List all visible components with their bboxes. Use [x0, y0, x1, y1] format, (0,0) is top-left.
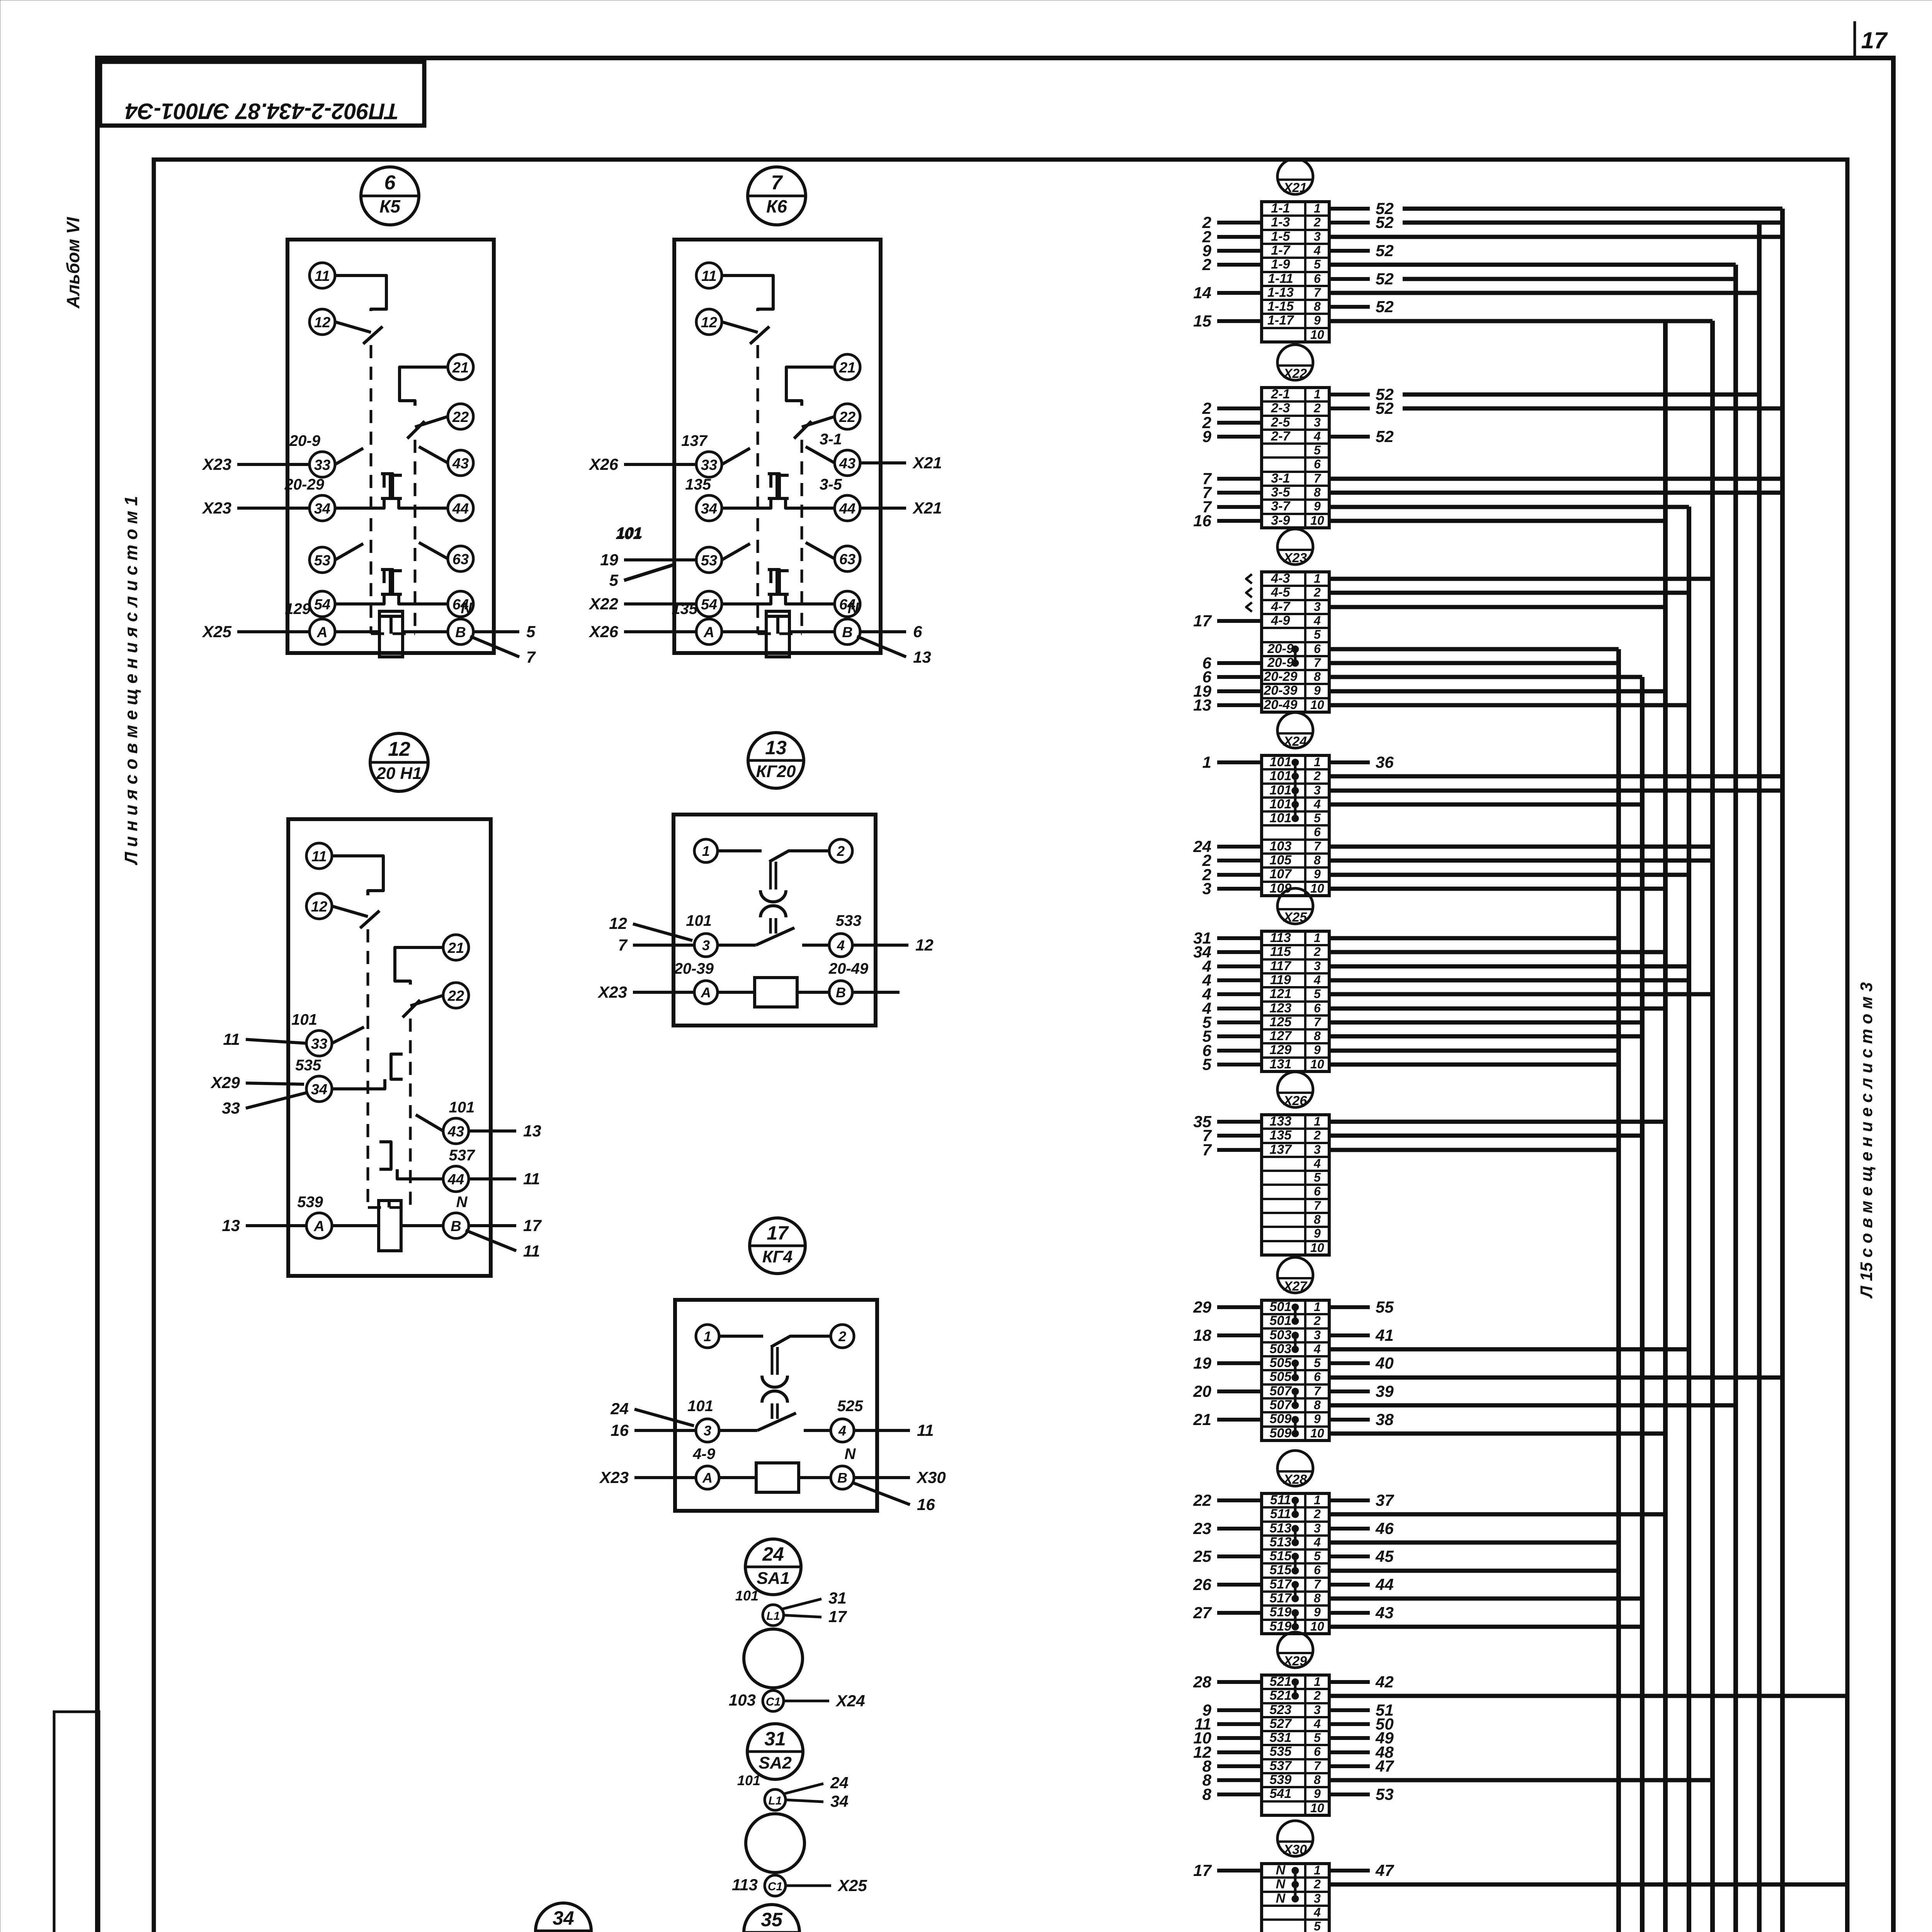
svg-text:Х21: Х21: [912, 454, 942, 472]
svg-text:135: 135: [685, 476, 711, 493]
svg-text:2: 2: [1313, 769, 1321, 783]
svg-text:13: 13: [765, 737, 787, 759]
svg-text:17: 17: [523, 1216, 542, 1235]
svg-text:52: 52: [1376, 213, 1394, 231]
svg-text:3-1: 3-1: [1271, 471, 1290, 486]
svg-text:103: 103: [729, 1691, 756, 1709]
svg-text:1: 1: [1314, 1863, 1321, 1877]
svg-text:3-5: 3-5: [820, 476, 842, 493]
svg-text:2: 2: [1313, 1128, 1321, 1142]
svg-text:6: 6: [913, 622, 922, 641]
svg-text:503: 503: [1270, 1328, 1292, 1342]
svg-text:20-9: 20-9: [1267, 641, 1294, 656]
svg-text:35: 35: [761, 1909, 783, 1930]
svg-text:3-7: 3-7: [1271, 499, 1291, 514]
svg-text:511: 511: [1270, 1493, 1291, 1507]
svg-text:533: 533: [836, 912, 862, 929]
svg-text:537: 537: [1270, 1759, 1293, 1773]
svg-text:22: 22: [447, 988, 464, 1004]
svg-text:105: 105: [1270, 853, 1292, 867]
svg-text:Л 15 с о в м е щ е н и е: Л 15 с о в м е щ е н и е с л и с т о м 3: [1857, 982, 1876, 1299]
svg-text:36: 36: [1376, 753, 1394, 771]
svg-text:113: 113: [732, 1876, 758, 1894]
svg-text:1: 1: [1314, 1114, 1321, 1128]
svg-text:1-3: 1-3: [1271, 215, 1290, 230]
svg-text:101: 101: [687, 1398, 713, 1415]
svg-text:К6: К6: [766, 196, 787, 216]
svg-text:В: В: [842, 624, 852, 641]
svg-text:3: 3: [704, 1423, 711, 1439]
svg-text:SА2: SА2: [759, 1753, 792, 1772]
svg-text:11: 11: [311, 849, 327, 865]
svg-text:9: 9: [1314, 684, 1321, 697]
svg-text:17: 17: [828, 1607, 847, 1626]
svg-text:1: 1: [1314, 931, 1321, 945]
svg-text:20 Н1: 20 Н1: [376, 764, 422, 783]
svg-text:519: 519: [1270, 1619, 1292, 1634]
svg-text:3: 3: [1314, 1143, 1321, 1156]
svg-text:8: 8: [1314, 853, 1321, 867]
svg-text:25: 25: [1193, 1547, 1211, 1565]
svg-text:18: 18: [1193, 1326, 1211, 1344]
svg-text:10: 10: [1310, 1619, 1324, 1633]
svg-text:4: 4: [838, 1423, 846, 1439]
svg-text:127: 127: [1270, 1029, 1293, 1043]
svg-text:9: 9: [1314, 1412, 1321, 1426]
svg-text:Х26: Х26: [1283, 1094, 1308, 1108]
svg-text:6: 6: [1314, 1184, 1321, 1198]
svg-text:Х23: Х23: [202, 499, 231, 517]
svg-text:505: 505: [1270, 1369, 1292, 1384]
svg-text:23: 23: [1193, 1519, 1211, 1537]
svg-text:7: 7: [1314, 1577, 1321, 1591]
svg-text:5: 5: [526, 622, 536, 641]
svg-text:16: 16: [611, 1421, 629, 1439]
svg-text:6: 6: [1314, 1370, 1321, 1384]
svg-text:17: 17: [1193, 1861, 1212, 1879]
svg-text:20-29: 20-29: [1264, 669, 1298, 684]
svg-text:Х23: Х23: [1283, 551, 1307, 565]
svg-text:5: 5: [1314, 1731, 1321, 1745]
svg-text:7: 7: [1314, 656, 1321, 670]
svg-text:541: 541: [1270, 1786, 1292, 1801]
svg-text:123: 123: [1270, 1001, 1292, 1015]
svg-text:44: 44: [1375, 1575, 1394, 1594]
svg-text:Х29: Х29: [1283, 1654, 1307, 1668]
svg-text:А: А: [703, 624, 714, 641]
svg-text:4: 4: [837, 937, 845, 953]
svg-text:38: 38: [1376, 1410, 1394, 1429]
svg-text:КГ4: КГ4: [762, 1247, 793, 1266]
svg-text:8: 8: [1314, 299, 1321, 313]
svg-text:Альбом VI: Альбом VI: [63, 217, 83, 309]
svg-text:523: 523: [1270, 1702, 1292, 1717]
svg-text:11: 11: [315, 268, 330, 284]
svg-text:54: 54: [701, 597, 717, 613]
svg-text:4: 4: [1313, 973, 1321, 987]
svg-text:12: 12: [915, 936, 934, 954]
svg-text:6: 6: [1314, 825, 1321, 839]
svg-text:21: 21: [452, 360, 469, 376]
svg-text:10: 10: [1310, 1241, 1324, 1255]
svg-text:3: 3: [1314, 415, 1321, 429]
svg-text:34: 34: [830, 1792, 849, 1810]
svg-text:15: 15: [1193, 312, 1211, 330]
svg-text:3-9: 3-9: [1271, 513, 1290, 528]
svg-text:14: 14: [1193, 284, 1211, 302]
svg-text:5: 5: [1314, 1356, 1321, 1370]
svg-text:535: 535: [295, 1057, 321, 1074]
svg-text:27: 27: [1193, 1604, 1212, 1622]
svg-text:22: 22: [1193, 1491, 1211, 1509]
svg-text:34: 34: [311, 1082, 327, 1098]
svg-text:20-9: 20-9: [289, 432, 321, 449]
svg-text:3: 3: [1314, 1521, 1321, 1535]
svg-text:4: 4: [1313, 1905, 1321, 1919]
svg-text:121: 121: [1270, 986, 1292, 1001]
svg-text:20-9: 20-9: [1267, 655, 1294, 670]
svg-text:2: 2: [1202, 255, 1211, 274]
svg-text:509: 509: [1270, 1426, 1292, 1440]
svg-text:1-7: 1-7: [1271, 243, 1291, 258]
svg-text:L1: L1: [766, 1610, 780, 1622]
svg-text:24: 24: [830, 1774, 849, 1792]
svg-text:3: 3: [1314, 783, 1321, 797]
svg-text:5: 5: [1314, 1919, 1321, 1932]
svg-text:137: 137: [1270, 1142, 1293, 1157]
svg-text:3: 3: [1314, 959, 1321, 973]
svg-text:7: 7: [1314, 471, 1321, 485]
svg-text:34: 34: [553, 1907, 574, 1929]
svg-text:1-11: 1-11: [1268, 271, 1293, 286]
svg-text:11: 11: [917, 1421, 934, 1439]
svg-text:8: 8: [1202, 1785, 1212, 1803]
svg-text:539: 539: [1270, 1772, 1292, 1787]
svg-text:8: 8: [1314, 485, 1321, 499]
svg-text:4-5: 4-5: [1270, 585, 1290, 600]
svg-text:Х25: Х25: [837, 1876, 867, 1895]
svg-text:101: 101: [737, 1772, 760, 1788]
svg-text:9: 9: [1314, 1605, 1321, 1619]
svg-text:501: 501: [1270, 1299, 1292, 1314]
svg-text:10: 10: [1310, 1801, 1324, 1815]
svg-text:1-9: 1-9: [1271, 257, 1290, 272]
svg-text:63: 63: [839, 551, 855, 568]
svg-text:12: 12: [311, 899, 327, 915]
svg-text:33: 33: [222, 1099, 240, 1117]
svg-text:119: 119: [1270, 973, 1291, 987]
svg-text:1: 1: [1202, 753, 1211, 771]
svg-text:133: 133: [1270, 1114, 1292, 1129]
svg-text:2-7: 2-7: [1270, 429, 1291, 444]
svg-text:2: 2: [837, 843, 845, 859]
svg-text:52: 52: [1376, 399, 1394, 417]
svg-text:43: 43: [1375, 1604, 1394, 1622]
svg-text:20-39: 20-39: [1264, 683, 1298, 698]
svg-text:40: 40: [1375, 1354, 1394, 1372]
svg-text:С1: С1: [766, 1696, 781, 1708]
svg-text:527: 527: [1270, 1716, 1293, 1731]
svg-text:11: 11: [701, 268, 716, 284]
svg-text:517: 517: [1270, 1591, 1293, 1605]
svg-text:Х26: Х26: [588, 455, 618, 473]
svg-text:2: 2: [1313, 1314, 1321, 1328]
svg-text:505: 505: [1270, 1355, 1292, 1370]
svg-text:ТП902-2-434.87 ЭЛ001-Э4: ТП902-2-434.87 ЭЛ001-Э4: [125, 99, 399, 124]
svg-text:513: 513: [1270, 1535, 1292, 1549]
svg-text:9: 9: [1314, 1226, 1321, 1240]
svg-text:4: 4: [1313, 1717, 1321, 1731]
svg-text:7: 7: [618, 936, 628, 954]
svg-text:Х21: Х21: [1283, 180, 1307, 195]
svg-text:8: 8: [1314, 1398, 1321, 1412]
svg-text:125: 125: [1270, 1015, 1292, 1029]
svg-text:2: 2: [1313, 1689, 1321, 1702]
svg-text:А: А: [702, 1470, 713, 1486]
svg-text:N: N: [1276, 1891, 1286, 1906]
svg-text:507: 507: [1270, 1384, 1293, 1398]
svg-text:509: 509: [1270, 1412, 1292, 1426]
svg-text:9: 9: [1202, 427, 1212, 446]
svg-text:22: 22: [452, 409, 469, 425]
svg-text:53: 53: [314, 553, 330, 569]
svg-text:2: 2: [838, 1328, 846, 1344]
svg-text:1-5: 1-5: [1271, 229, 1290, 244]
svg-text:6: 6: [1314, 642, 1321, 656]
svg-text:46: 46: [1375, 1519, 1394, 1537]
svg-text:3: 3: [1202, 879, 1211, 898]
svg-text:44: 44: [839, 501, 855, 517]
svg-text:2: 2: [1313, 945, 1321, 959]
svg-text:7: 7: [1202, 1141, 1212, 1159]
svg-text:Х27: Х27: [1283, 1279, 1308, 1294]
svg-text:9: 9: [1314, 313, 1321, 327]
svg-text:N: N: [845, 1446, 856, 1463]
svg-text:13: 13: [1193, 696, 1211, 714]
svg-text:115: 115: [1270, 944, 1291, 959]
svg-text:3: 3: [1314, 600, 1321, 614]
svg-text:Х25: Х25: [202, 622, 231, 641]
svg-text:117: 117: [1270, 959, 1292, 973]
svg-text:43: 43: [452, 456, 469, 472]
svg-text:1: 1: [1314, 201, 1321, 215]
svg-text:Х30: Х30: [1283, 1842, 1307, 1857]
svg-text:6: 6: [1314, 1001, 1321, 1015]
svg-text:513: 513: [1270, 1521, 1292, 1536]
svg-text:20-29: 20-29: [284, 476, 325, 493]
svg-text:16: 16: [1193, 512, 1211, 530]
svg-text:31: 31: [828, 1589, 847, 1607]
svg-text:А: А: [701, 985, 711, 1000]
svg-text:17: 17: [767, 1222, 789, 1244]
svg-text:517: 517: [1270, 1577, 1293, 1592]
svg-text:101: 101: [1270, 755, 1292, 769]
svg-text:511: 511: [1270, 1507, 1291, 1521]
svg-text:9: 9: [1314, 1043, 1321, 1057]
svg-text:2: 2: [1313, 215, 1321, 229]
svg-text:101: 101: [1270, 769, 1292, 783]
svg-text:21: 21: [839, 360, 855, 376]
svg-text:20: 20: [1193, 1382, 1211, 1400]
svg-text:2-5: 2-5: [1270, 415, 1290, 430]
svg-text:8: 8: [1314, 670, 1321, 684]
svg-text:17: 17: [1193, 612, 1212, 630]
svg-text:1-17: 1-17: [1267, 313, 1294, 328]
svg-text:1-1: 1-1: [1271, 201, 1290, 216]
svg-text:7: 7: [1314, 1759, 1321, 1773]
svg-text:53: 53: [1376, 1785, 1394, 1803]
svg-text:5: 5: [609, 571, 619, 589]
svg-text:3: 3: [1314, 1328, 1321, 1342]
svg-text:4: 4: [1313, 797, 1321, 811]
svg-text:6: 6: [1314, 1745, 1321, 1759]
svg-text:54: 54: [314, 597, 330, 613]
svg-text:44: 44: [447, 1172, 464, 1188]
svg-text:2: 2: [1313, 585, 1321, 599]
svg-text:1: 1: [702, 843, 710, 859]
svg-text:39: 39: [1376, 1382, 1394, 1400]
svg-text:20-39: 20-39: [674, 960, 714, 977]
svg-text:10: 10: [1310, 1057, 1324, 1071]
svg-text:101: 101: [291, 1011, 317, 1028]
svg-text:В: В: [455, 624, 466, 641]
svg-text:5: 5: [1314, 987, 1321, 1001]
svg-text:N: N: [461, 600, 473, 617]
svg-text:113: 113: [1270, 930, 1291, 945]
svg-text:19: 19: [1193, 1354, 1211, 1372]
svg-text:24: 24: [610, 1400, 629, 1418]
svg-text:2: 2: [1313, 401, 1321, 415]
svg-text:4: 4: [1313, 1342, 1321, 1356]
svg-text:52: 52: [1376, 270, 1394, 288]
svg-text:515: 515: [1270, 1563, 1292, 1577]
svg-text:43: 43: [839, 456, 855, 472]
svg-text:13: 13: [222, 1216, 240, 1235]
svg-text:Х23: Х23: [597, 983, 627, 1001]
svg-text:135: 135: [1270, 1128, 1292, 1143]
svg-text:5: 5: [1314, 811, 1321, 825]
svg-text:6: 6: [384, 172, 396, 194]
svg-text:4: 4: [1313, 243, 1321, 257]
svg-text:10: 10: [1310, 1426, 1324, 1440]
svg-text:А: А: [316, 624, 327, 641]
svg-text:507: 507: [1270, 1398, 1293, 1412]
svg-text:11: 11: [223, 1030, 240, 1048]
svg-text:8: 8: [1314, 1029, 1321, 1043]
svg-text:101: 101: [1270, 811, 1292, 825]
svg-text:24: 24: [762, 1543, 784, 1565]
svg-text:5: 5: [1314, 1549, 1321, 1563]
svg-text:С1: С1: [768, 1880, 782, 1893]
svg-text:101: 101: [1270, 797, 1292, 811]
svg-text:10: 10: [1310, 514, 1324, 527]
svg-text:31: 31: [764, 1728, 786, 1750]
svg-text:7: 7: [1314, 839, 1321, 853]
svg-text:N: N: [456, 1194, 468, 1211]
svg-text:Х23: Х23: [599, 1468, 629, 1486]
svg-text:Х24: Х24: [1283, 734, 1307, 749]
svg-text:9: 9: [1314, 1787, 1321, 1801]
svg-text:5: 5: [1314, 443, 1321, 457]
svg-text:8: 8: [1314, 1591, 1321, 1605]
svg-text:Х22: Х22: [1283, 366, 1307, 381]
svg-text:521: 521: [1270, 1674, 1292, 1689]
svg-text:7: 7: [1314, 286, 1321, 299]
svg-text:26: 26: [1193, 1575, 1211, 1594]
svg-text:101: 101: [1270, 783, 1292, 798]
svg-text:52: 52: [1376, 427, 1394, 446]
svg-text:13: 13: [523, 1122, 541, 1140]
svg-text:19: 19: [600, 551, 618, 569]
svg-text:37: 37: [1376, 1491, 1394, 1509]
svg-text:А: А: [313, 1218, 324, 1235]
svg-text:41: 41: [1375, 1326, 1394, 1344]
svg-text:4: 4: [1313, 1535, 1321, 1549]
svg-text:4-7: 4-7: [1270, 599, 1291, 614]
svg-text:В: В: [451, 1218, 461, 1235]
svg-text:1: 1: [1314, 1300, 1321, 1314]
svg-text:12: 12: [314, 315, 330, 331]
svg-text:Х24: Х24: [835, 1692, 865, 1710]
svg-text:52: 52: [1376, 298, 1394, 316]
svg-text:47: 47: [1375, 1861, 1394, 1879]
svg-text:501: 501: [1270, 1313, 1292, 1328]
svg-text:34: 34: [701, 501, 717, 517]
svg-text:137: 137: [681, 432, 707, 449]
svg-text:52: 52: [1376, 241, 1394, 260]
svg-text:16: 16: [917, 1495, 935, 1514]
svg-text:8: 8: [1314, 1773, 1321, 1787]
svg-text:Х29: Х29: [210, 1073, 240, 1092]
svg-text:В: В: [836, 985, 846, 1000]
svg-text:3-1: 3-1: [820, 431, 842, 448]
svg-text:6: 6: [1314, 1563, 1321, 1577]
svg-text:В: В: [837, 1470, 847, 1486]
svg-text:13: 13: [913, 648, 931, 666]
svg-text:28: 28: [1193, 1673, 1211, 1691]
svg-text:1-13: 1-13: [1267, 285, 1294, 300]
svg-text:4-9: 4-9: [1270, 613, 1290, 628]
svg-text:47: 47: [1375, 1757, 1394, 1775]
svg-text:42: 42: [1375, 1673, 1394, 1691]
svg-text:3-5: 3-5: [1271, 485, 1290, 500]
svg-text:537: 537: [449, 1147, 475, 1164]
svg-text:N: N: [1276, 1877, 1286, 1891]
svg-text:33: 33: [701, 457, 717, 473]
svg-text:5: 5: [1314, 628, 1321, 641]
svg-text:34: 34: [314, 501, 330, 517]
svg-text:53: 53: [701, 553, 717, 569]
svg-text:1: 1: [1314, 387, 1321, 401]
svg-text:2-3: 2-3: [1270, 401, 1290, 415]
svg-text:1: 1: [1314, 755, 1321, 769]
svg-text:43: 43: [447, 1124, 464, 1140]
svg-text:5: 5: [1314, 1170, 1321, 1184]
svg-text:4: 4: [1313, 429, 1321, 443]
svg-text:3: 3: [702, 937, 710, 953]
svg-text:6: 6: [1314, 457, 1321, 471]
svg-text:12: 12: [609, 914, 627, 932]
svg-text:11: 11: [523, 1170, 540, 1188]
svg-text:N: N: [848, 600, 859, 617]
svg-text:103: 103: [1270, 839, 1292, 854]
svg-text:33: 33: [314, 457, 330, 473]
svg-text:17: 17: [1861, 27, 1888, 53]
svg-text:129: 129: [285, 600, 311, 617]
svg-text:503: 503: [1270, 1342, 1292, 1356]
svg-text:6: 6: [1314, 272, 1321, 286]
svg-text:101: 101: [617, 524, 643, 541]
